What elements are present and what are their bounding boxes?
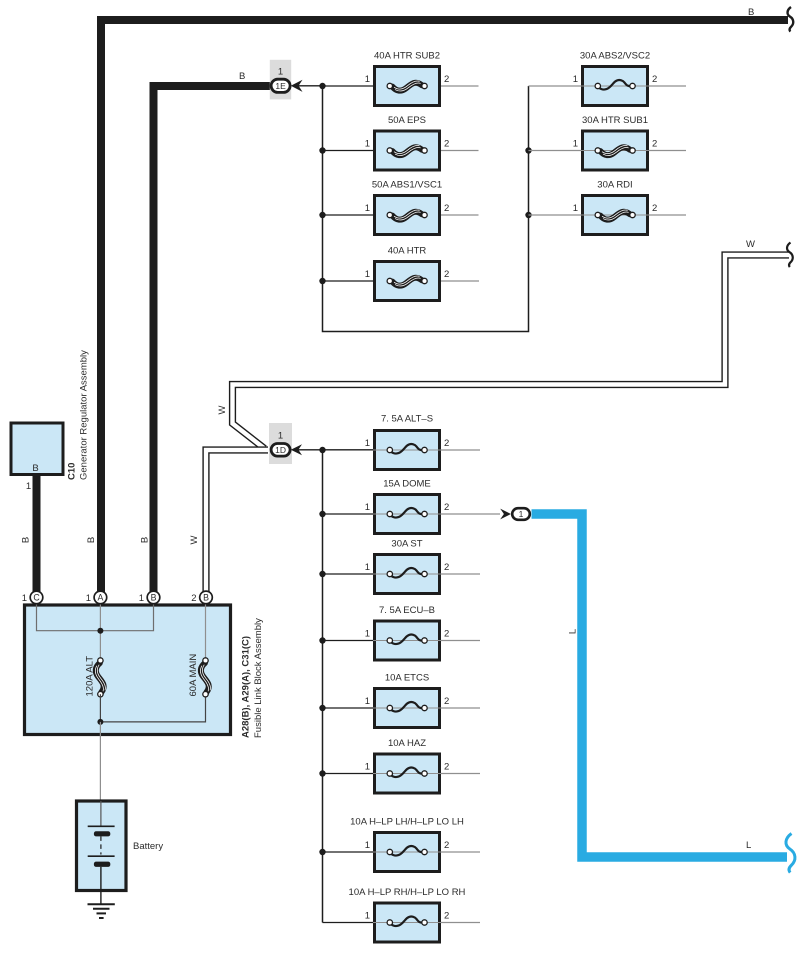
internal wiring: junction to 60A MAIN [100,694,205,722]
fuse F5: 30A ABS2/VSC2 [573,51,686,106]
svg-text:30A ABS2/VSC2: 30A ABS2/VSC2 [580,51,650,62]
internal wiring: pin 2B drop [205,604,207,658]
svg-text:40A HTR SUB2: 40A HTR SUB2 [374,51,440,62]
svg-text:Fusible Link Block Assembly: Fusible Link Block Assembly [253,618,264,738]
fuse F4: 40A HTR [323,246,480,301]
internal wiring: pin C drop [37,604,154,631]
svg-text:1: 1 [365,502,370,513]
svg-text:2: 2 [444,502,449,513]
svg-text:2: 2 [444,840,449,851]
wire: W from connector 1D to fuse block pin 2B (outlined) [206,450,268,592]
svg-text:1: 1 [365,139,370,150]
svg-text:1: 1 [278,431,283,442]
svg-text:1: 1 [365,840,370,851]
svg-text:1: 1 [365,911,370,922]
svg-text:2: 2 [444,911,449,922]
svg-text:L: L [568,629,579,634]
svg-text:B: B [203,593,209,603]
svg-text:C10: C10 [67,463,78,480]
junction dot internal [97,628,103,634]
svg-text:A: A [97,593,103,603]
svg-text:1: 1 [26,481,31,492]
svg-text:2: 2 [652,203,657,214]
svg-text:2: 2 [444,696,449,707]
svg-text:2: 2 [444,203,449,214]
svg-text:120A ALT: 120A ALT [85,656,96,697]
svg-text:2: 2 [444,139,449,150]
wire: B from C10 pin 1 to fuse block pin C (thick black) [33,476,41,592]
svg-text:B: B [32,463,38,474]
wire to battery [99,722,101,800]
svg-text:B: B [86,537,97,543]
fuse F7: 30A RDI [573,180,686,235]
svg-text:1: 1 [86,593,91,604]
svg-text:Battery: Battery [133,841,163,852]
connector 1D [269,423,373,464]
svg-text:1E: 1E [275,81,286,91]
fusible link block assembly box [25,605,231,735]
svg-text:10A H–LP LH/H–LP LO LH: 10A H–LP LH/H–LP LO LH [350,817,464,828]
svg-text:2: 2 [652,74,657,85]
continuation mark (W wire) [787,243,793,268]
fuse F8: 7.5A ALT-S [365,414,480,470]
bus: lower fuse group [322,450,324,923]
svg-text:10A H–LP RH/H–LP LO RH: 10A H–LP RH/H–LP LO RH [349,887,466,898]
svg-text:1: 1 [519,509,524,519]
svg-text:B: B [140,537,151,543]
fuse F12: 10A ETCS [323,673,481,728]
fuse F6: 30A HTR SUB1 [573,115,686,170]
svg-text:15A DOME: 15A DOME [383,479,431,490]
connector T (DOME output, oval 1) [500,508,530,520]
svg-text:40A HTR: 40A HTR [388,246,427,257]
fuse F11: 7.5A ECU-B [323,605,481,660]
svg-text:1: 1 [365,762,370,773]
fusible link 120A ALT [85,656,106,697]
svg-text:2: 2 [191,593,196,604]
svg-text:1: 1 [573,74,578,85]
junction dots lower bus [319,447,325,453]
svg-text:1: 1 [139,593,144,604]
svg-text:2: 2 [444,438,449,449]
svg-text:C: C [33,593,40,603]
wire: battery positive B bus (thick black, top) [101,20,788,592]
continuation mark (top B wire) [788,7,794,32]
fuse F9: 15A DOME [323,479,501,534]
svg-text:50A ABS1/VSC1: 50A ABS1/VSC1 [372,180,442,191]
fuse F2: 50A EPS [323,115,582,170]
bus: upper fuse group [323,86,529,332]
svg-text:W: W [189,535,200,544]
svg-text:B: B [239,71,245,82]
continuation mark (L wire) [786,834,795,873]
svg-text:2: 2 [444,629,449,640]
ground [88,904,115,918]
svg-text:B: B [748,7,754,18]
fuse F14: 10A H-LP LH/H-LP LO LH [323,817,481,872]
svg-text:2: 2 [444,562,449,573]
svg-text:1: 1 [365,562,370,573]
svg-text:10A ETCS: 10A ETCS [385,673,429,684]
fuse F10: 30A ST [323,539,481,594]
svg-text:B: B [151,593,157,603]
svg-text:50A EPS: 50A EPS [388,115,426,126]
fuse F3: 50A ABS1/VSC1 [323,180,582,235]
fuse F15: 10A H-LP RH/H-LP LO RH [323,887,481,942]
svg-text:1: 1 [573,203,578,214]
C10 generator regulator assembly box [11,423,63,492]
fuse F1: 40A HTR SUB2 [323,51,582,106]
svg-text:30A RDI: 30A RDI [597,180,632,191]
connector 1E [270,60,323,100]
svg-text:B: B [21,537,32,543]
svg-text:2: 2 [444,269,449,280]
svg-text:2: 2 [652,139,657,150]
battery [77,801,164,904]
fuse F13: 10A HAZ [323,738,481,793]
svg-text:7. 5A ECU–B: 7. 5A ECU–B [379,605,435,616]
svg-text:1: 1 [365,438,370,449]
svg-text:A28(B), A29(A), C31(C): A28(B), A29(A), C31(C) [241,636,252,738]
svg-text:Generator Regulator Assembly: Generator Regulator Assembly [79,350,90,480]
svg-text:2: 2 [444,74,449,85]
wire: B from fuse block pin B to connector 1E (thick black) [154,86,271,592]
svg-text:1D: 1D [275,445,286,455]
svg-text:30A ST: 30A ST [391,539,422,550]
svg-text:1: 1 [365,74,370,85]
wire: L cyan wire from DOME connector [532,514,788,857]
svg-text:W: W [746,239,755,250]
svg-text:60A MAIN: 60A MAIN [188,654,199,697]
svg-text:2: 2 [444,762,449,773]
svg-text:1: 1 [365,269,370,280]
fusible link 60A MAIN [188,654,211,697]
svg-text:10A HAZ: 10A HAZ [388,738,426,749]
svg-text:1: 1 [278,67,283,78]
svg-text:7. 5A ALT–S: 7. 5A ALT–S [381,414,433,425]
svg-text:1: 1 [365,629,370,640]
junction dot to battery [97,719,103,725]
wire: W white wire from right side to connector 1D (outlined) [233,255,790,449]
svg-text:1: 1 [22,593,27,604]
svg-text:30A HTR SUB1: 30A HTR SUB1 [582,115,648,126]
svg-text:1: 1 [365,696,370,707]
svg-text:L: L [746,840,751,851]
internal wiring: pin A drop [99,604,101,658]
svg-text:1: 1 [573,139,578,150]
junction dots upper bus [319,83,325,89]
internal wiring: ALT to junction [99,694,101,722]
fuse block pins [22,591,43,604]
svg-text:1: 1 [365,203,370,214]
svg-text:W: W [217,405,228,414]
